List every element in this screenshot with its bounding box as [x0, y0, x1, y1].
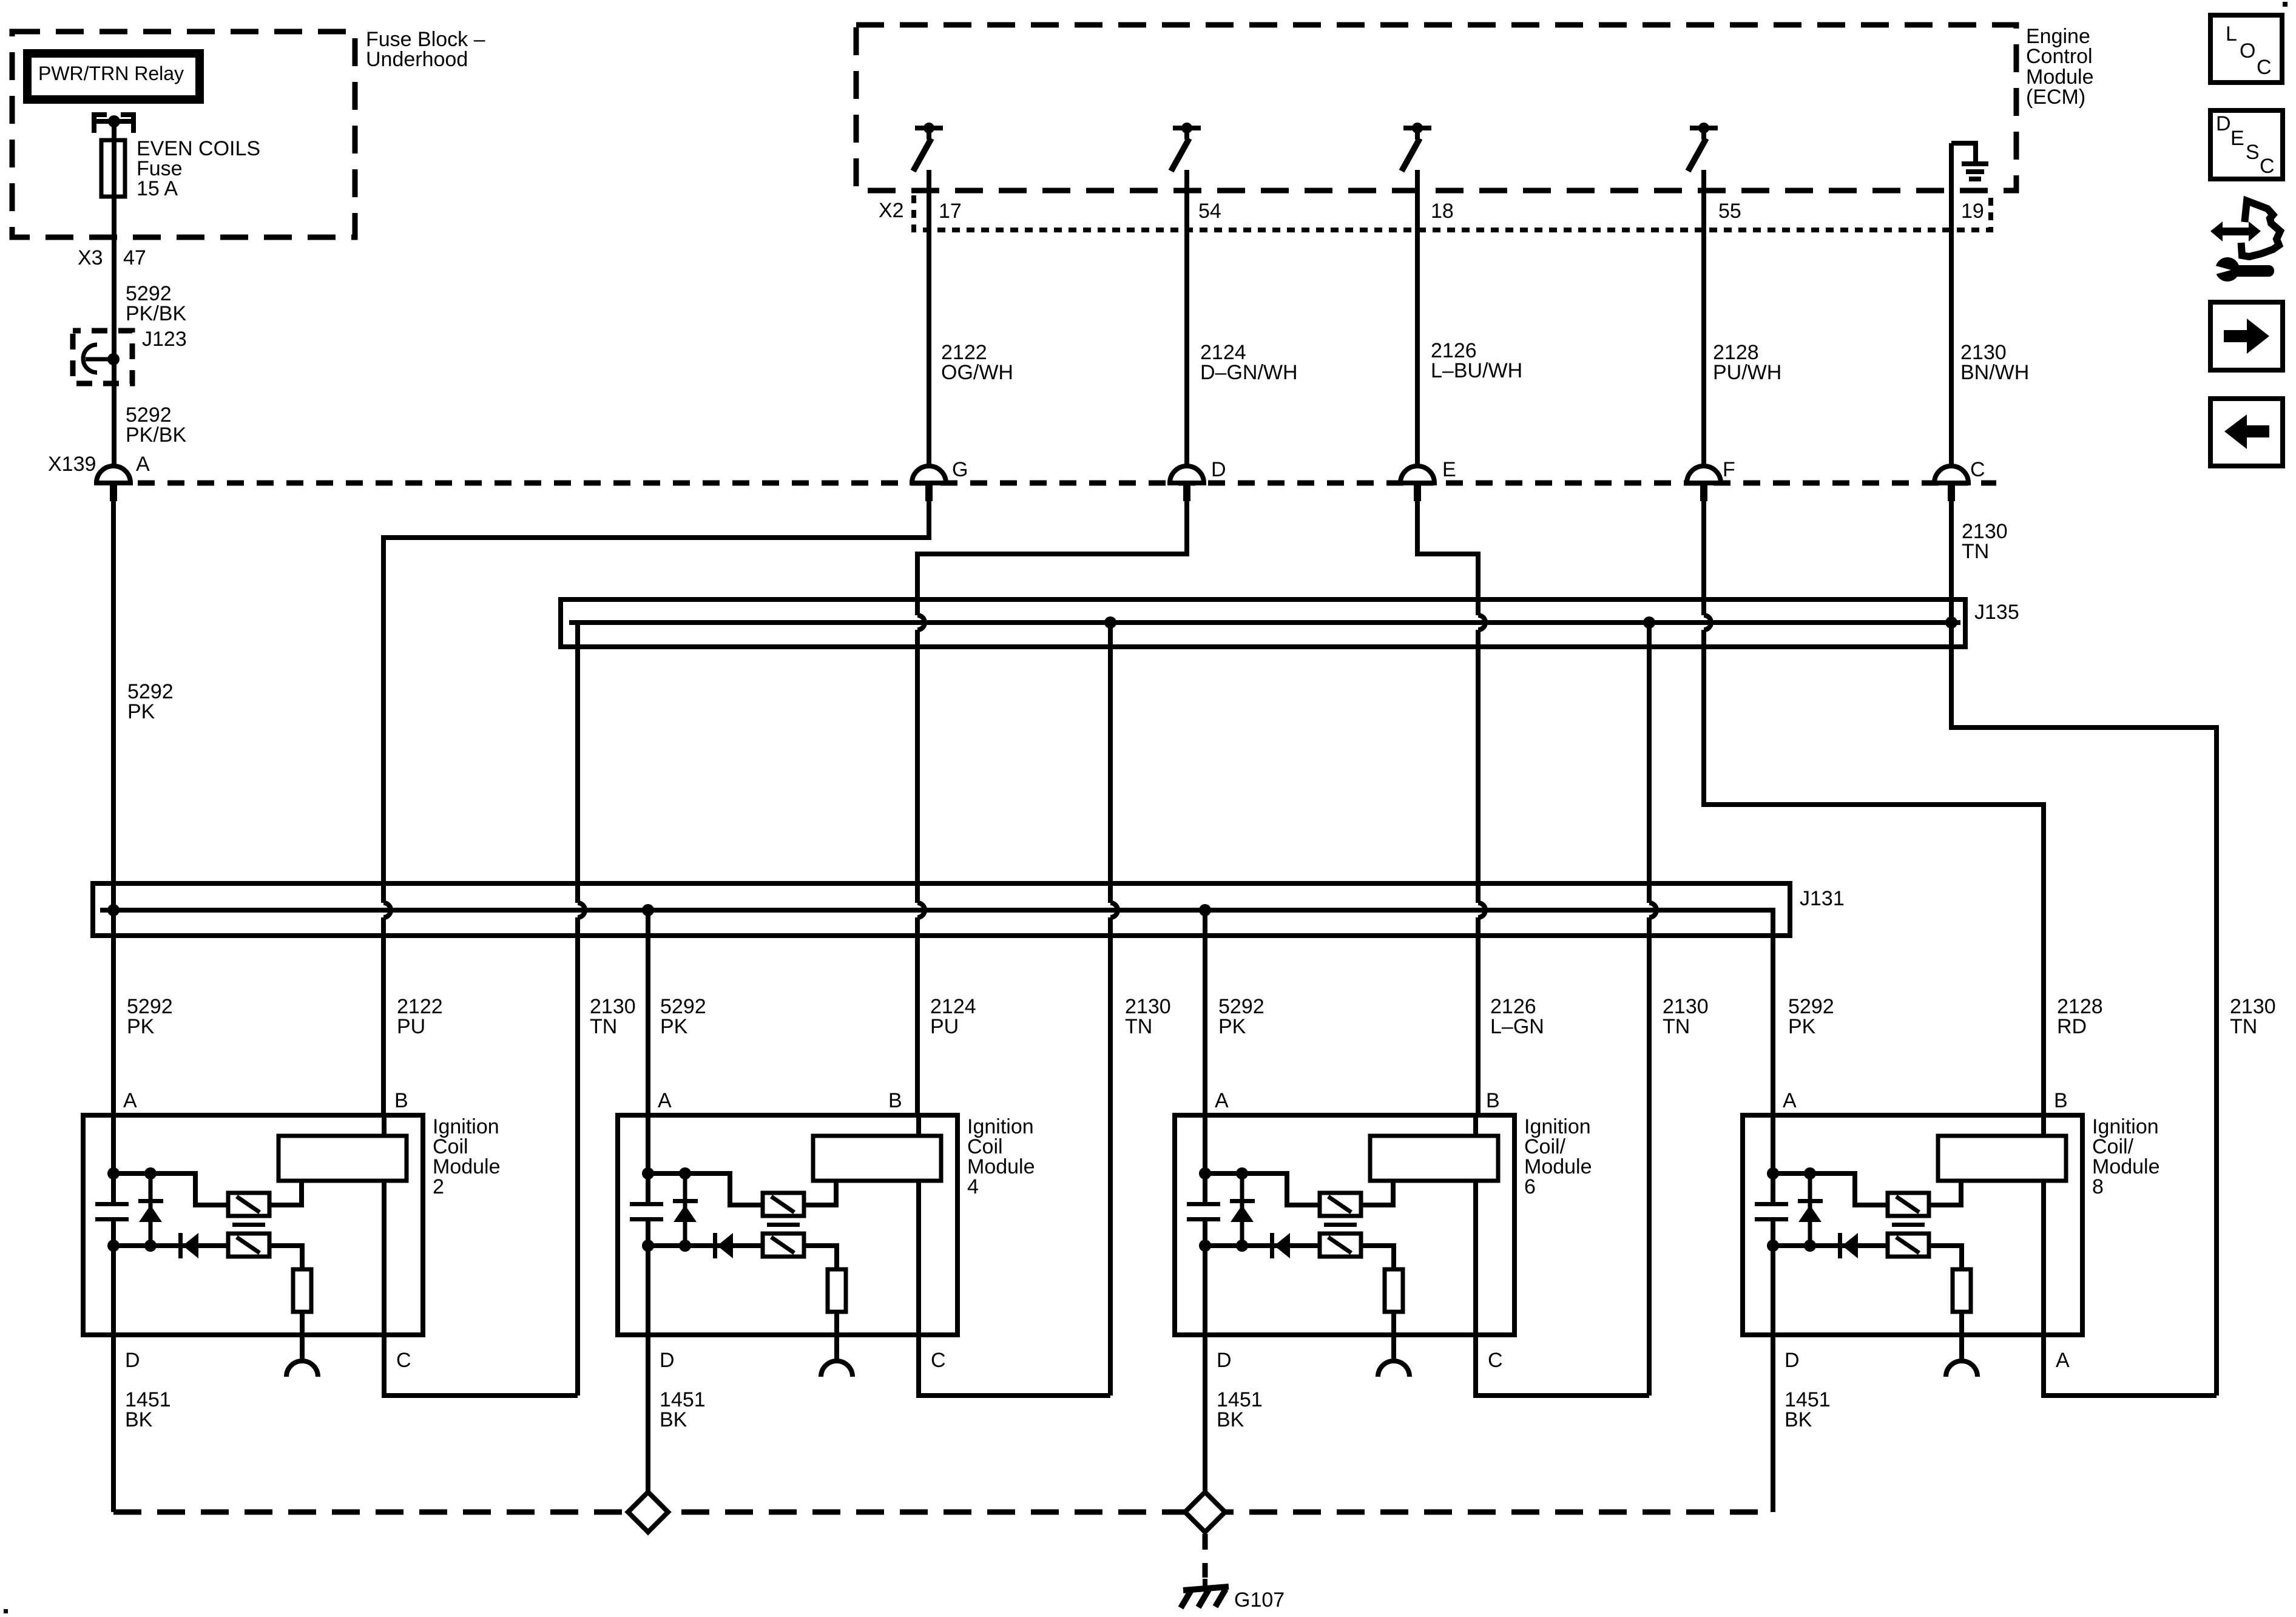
hop of 2124 wire over J135 bus: [917, 615, 925, 630]
module 8 junction dots: [1767, 1167, 1779, 1180]
svg-text:C: C: [2257, 56, 2272, 79]
module 6 opto coupler lower: [1320, 1234, 1361, 1257]
module 2 spark plug lead: [300, 1312, 305, 1361]
junction dot J131 at module 4 feed: [642, 904, 654, 916]
wire 2128 from X139 F down, right and down to module 8 B: [1704, 501, 2044, 1115]
svg-text:8: 8: [2092, 1175, 2104, 1198]
X139 pin D bump: [1170, 458, 1226, 501]
wire 5292 PK from J131 to module 4 A: [646, 910, 650, 1115]
module 2 pin B wire: [382, 1115, 387, 1335]
svg-text:J131: J131: [1800, 887, 1845, 910]
vehicle view icon (car outline): [2241, 201, 2280, 257]
svg-text:BK: BK: [1784, 1408, 1812, 1431]
module 6 junction dots: [1199, 1167, 1211, 1180]
wire pin 55 to X139 F: [1701, 170, 1706, 466]
svg-text:E: E: [1442, 458, 1456, 481]
relay output terminal bracket: [94, 115, 133, 133]
svg-text:BK: BK: [125, 1408, 153, 1431]
module 4 spark plug tower arc: [821, 1361, 853, 1377]
svg-text:A: A: [123, 1089, 137, 1112]
wire 2130 from X139 C down into J135: [1949, 501, 1954, 623]
module 2 secondary return wire to 2130 TN: [384, 1335, 578, 1396]
X139 pin G bump: [912, 458, 968, 501]
svg-text:A: A: [1783, 1089, 1797, 1112]
module 8 pin A wire / primary rail: [1771, 1115, 1775, 1335]
module 8 opto2 lead to resistor: [1929, 1246, 1962, 1269]
ECM internal ground at pin 19: [1951, 143, 1988, 181]
module 6 capacitor: [1187, 1202, 1220, 1206]
module 2 capacitor: [95, 1202, 129, 1206]
junction dot J123: [107, 353, 120, 365]
svg-text:PU: PU: [930, 1015, 959, 1038]
junction dot at relay terminal: [108, 115, 120, 127]
svg-text:55: 55: [1718, 200, 1741, 223]
module 6 pin B wire: [1473, 1115, 1478, 1335]
svg-text:D: D: [1217, 1349, 1232, 1372]
module 6 opto coupler upper: [1320, 1193, 1361, 1216]
wire 5292 PK from J131 to module 6 A: [1203, 910, 1207, 1115]
module 4 secondary return wire to 2130 TN: [919, 1335, 1110, 1396]
splice diamond at module 6 D: [1185, 1492, 1225, 1532]
module 2 zener diode (up): [149, 1173, 153, 1246]
svg-text:PK: PK: [1218, 1015, 1246, 1038]
X139 pin F bump: [1687, 458, 1735, 501]
module 2 resistor: [293, 1269, 311, 1312]
svg-text:4: 4: [967, 1175, 979, 1198]
junction dot J135 at 2130 TN branch 2: [1643, 616, 1655, 629]
ground symbol G107: [1181, 1587, 1229, 1608]
module 2 junction dots: [107, 1167, 120, 1180]
module 6 spark plug lead: [1391, 1312, 1396, 1361]
wire pin 18 to X139 E: [1415, 170, 1420, 466]
svg-text:6: 6: [1524, 1175, 1536, 1198]
module 4 pin D wire to ground bus: [646, 1335, 650, 1493]
Engine Control Module dashed box: [856, 25, 2016, 191]
page corner mark top right: [2283, 2, 2288, 7]
ignition coil module 4 box: [618, 1115, 957, 1335]
svg-text:PWR/TRN Relay: PWR/TRN Relay: [38, 62, 184, 84]
wire 2124 from X139 D left and down to module 4 B: [917, 501, 1187, 1115]
module 8 spark plug tower arc: [1946, 1361, 1977, 1377]
module 4 resistor: [828, 1269, 846, 1312]
ECM driver switch pin 55: [1688, 123, 1718, 171]
module 4 pin B wire: [916, 1115, 921, 1335]
wire pin 17 to X139 G: [927, 170, 931, 466]
module 6 zener diode (up): [1240, 1173, 1244, 1246]
svg-text:A: A: [1215, 1089, 1229, 1112]
module 2 pin D wire to ground bus: [111, 1335, 116, 1512]
svg-text:PK: PK: [127, 1015, 155, 1038]
module 8 resistor: [1953, 1269, 1971, 1312]
ignition coil module 8 box: [1743, 1115, 2082, 1335]
module 6 upper rail: [1205, 1173, 1320, 1205]
module 4 capacitor: [630, 1202, 663, 1206]
svg-text:G: G: [952, 458, 968, 481]
svg-text:(ECM): (ECM): [2026, 86, 2085, 109]
svg-text:TN: TN: [1663, 1015, 1690, 1038]
module 6 lower rail: [1205, 1243, 1320, 1248]
svg-text:D: D: [2216, 112, 2231, 135]
PWR/TRN Relay box: [27, 53, 200, 100]
module 8 upper rail: [1773, 1173, 1888, 1205]
svg-text:X2: X2: [879, 199, 904, 222]
ground bus 1451 BK dashed line: [113, 1510, 1773, 1515]
svg-text:RD: RD: [2057, 1015, 2087, 1038]
module 2 upper rail: [113, 1173, 228, 1205]
module 4 spark plug lead: [834, 1312, 839, 1361]
svg-text:D–GN/WH: D–GN/WH: [1200, 361, 1298, 384]
module 4 opto2 lead to resistor: [804, 1246, 837, 1269]
svg-text:TN: TN: [1962, 540, 1989, 563]
Fuse Block - Underhood dashed box: [12, 32, 355, 237]
svg-text:18: 18: [1431, 200, 1454, 223]
wire 2126 from X139 E right and down to module 6 B: [1417, 501, 1478, 1115]
junction dot J135 at pin C wire: [1945, 616, 1957, 629]
junction dot J131 at 5292 PK main wire: [107, 904, 120, 916]
module 4 lower rail: [648, 1243, 763, 1248]
svg-text:BK: BK: [1217, 1408, 1244, 1431]
junction dot J131 at module 6 feed: [1199, 904, 1211, 916]
X2 connector strip: [914, 195, 1991, 230]
hop of 2126 wire over J131 bus: [1478, 903, 1485, 917]
module 8 pin D wire to ground bus: [1771, 1335, 1775, 1512]
svg-text:C: C: [1488, 1349, 1503, 1372]
svg-text:15 A: 15 A: [137, 177, 178, 200]
ECM driver switch pin 17: [913, 123, 943, 171]
svg-text:C: C: [2260, 155, 2275, 178]
svg-text:BN/WH: BN/WH: [1960, 361, 2029, 384]
ECM driver switch pin 54: [1171, 123, 1201, 171]
svg-text:C: C: [1970, 458, 1985, 481]
svg-text:Control: Control: [2026, 45, 2093, 68]
wire 2130 TN from J135 down to module 4 C run: [1108, 623, 1113, 1396]
module 6 diode (left): [1270, 1233, 1274, 1258]
svg-text:D: D: [1784, 1349, 1800, 1372]
wire 2130 TN from J135 down to module 6 C run: [1647, 623, 1652, 1396]
module 8 secondary return wire to 2130 TN: [2044, 1335, 2217, 1396]
module 2 core bar: [232, 1223, 265, 1227]
J135 bus line: [569, 623, 1960, 647]
module 4 opto coupler lower: [763, 1234, 804, 1257]
svg-text:X139: X139: [48, 453, 96, 476]
svg-text:Underhood: Underhood: [366, 48, 468, 71]
svg-text:D: D: [1211, 458, 1226, 481]
previous page arrow icon: [2210, 399, 2283, 466]
module 6 core bar: [1324, 1223, 1357, 1227]
module 8 core bar: [1892, 1223, 1925, 1227]
svg-text:PU/WH: PU/WH: [1713, 361, 1781, 384]
svg-text:C: C: [931, 1349, 946, 1372]
svg-text:PK/BK: PK/BK: [126, 302, 186, 325]
hop of left 2130 TN wire over J131 bus: [578, 903, 585, 917]
svg-text:E: E: [2230, 127, 2244, 150]
module 8 pin B wire: [2041, 1115, 2046, 1335]
module 6 opto2 lead to resistor: [1361, 1246, 1394, 1269]
ECM driver switch pin 18: [1402, 123, 1431, 171]
svg-text:B: B: [1486, 1089, 1500, 1112]
svg-text:J135: J135: [1974, 601, 2019, 624]
module 2 opto1 output lead: [269, 1181, 302, 1205]
module 8 coil IC block: [1938, 1136, 2066, 1181]
module 2 diode (left): [178, 1233, 183, 1258]
svg-text:19: 19: [1961, 200, 1984, 223]
dashed drop to ground G107: [1203, 1534, 1208, 1578]
module 4 upper rail: [648, 1173, 763, 1205]
wire 2122 from X139 G left and down to module 2 B: [383, 501, 929, 1115]
LOC icon box: [2210, 15, 2282, 83]
DESC icon box: [2210, 110, 2283, 179]
junction dot J135 at 2130 TN branch 1: [1104, 616, 1116, 629]
module 6 resistor: [1385, 1269, 1403, 1312]
module 8 spark plug lead: [1959, 1312, 1964, 1361]
module 2 pin A wire / primary rail: [111, 1115, 116, 1335]
svg-text:TN: TN: [590, 1015, 617, 1038]
module 4 coil IC block: [813, 1136, 941, 1181]
svg-text:L–BU/WH: L–BU/WH: [1431, 359, 1522, 382]
hop of 2124 wire over J131 bus: [917, 903, 925, 917]
svg-text:B: B: [888, 1089, 902, 1112]
wire pin 54 to X139 D: [1184, 170, 1189, 466]
splice pack J131 outer bar: [93, 883, 1790, 936]
svg-text:D: D: [125, 1349, 140, 1372]
svg-text:A: A: [136, 453, 150, 476]
module 4 core bar: [767, 1223, 800, 1227]
page corner mark bottom left: [4, 1609, 8, 1613]
vehicle view icon (wrench): [2211, 257, 2274, 282]
X139 pin A bump: [96, 453, 150, 501]
ignition coil module 2 box: [83, 1115, 423, 1335]
wire from relay terminal through fuse down to X139: [112, 121, 116, 466]
module 8 opto coupler upper: [1888, 1193, 1929, 1216]
module 4 junction dots: [642, 1167, 654, 1180]
hop of 2128 wire over J135 bus: [1704, 615, 1711, 630]
module 6 pin D wire to ground bus: [1203, 1335, 1207, 1493]
splice symbol in J123: [83, 345, 113, 373]
hop over J131 bus: [1649, 903, 1656, 917]
hop of 2126 wire over J135 bus: [1478, 615, 1485, 630]
module 2 lower rail: [113, 1243, 228, 1248]
X139 pin E bump: [1400, 458, 1456, 501]
svg-text:OG/WH: OG/WH: [941, 361, 1013, 384]
module 8 zener diode (up): [1808, 1173, 1812, 1246]
wire pin 19 to X139 C: [1949, 143, 1954, 468]
wire 5292 PK from X139 A down to module 2 (through J131 dot): [111, 501, 116, 1115]
svg-text:O: O: [2240, 39, 2255, 62]
svg-text:C: C: [396, 1349, 411, 1372]
svg-text:J123: J123: [142, 328, 187, 351]
svg-text:2: 2: [433, 1175, 444, 1198]
svg-text:G107: G107: [1234, 1588, 1285, 1612]
hop over J131 bus: [1110, 903, 1118, 917]
svg-text:PK: PK: [660, 1015, 688, 1038]
module 4 diode (left): [713, 1233, 717, 1258]
svg-text:PU: PU: [397, 1015, 425, 1038]
ignition coil module 6 box: [1175, 1115, 1514, 1335]
svg-text:A: A: [658, 1089, 672, 1112]
module 2 opto coupler upper: [228, 1193, 269, 1216]
module 8 capacitor: [1755, 1202, 1788, 1206]
splice pack J135 outer bar: [561, 599, 1965, 647]
wire 5292 PK from J131 right end to module 8 A: [1771, 936, 1775, 1115]
svg-text:47: 47: [123, 246, 146, 269]
X139 pin C bump: [1934, 458, 1985, 501]
svg-text:PK: PK: [1788, 1015, 1816, 1038]
module 8 opto coupler lower: [1888, 1234, 1929, 1257]
module 6 coil IC block: [1370, 1136, 1498, 1181]
module 4 zener diode (up): [683, 1173, 687, 1246]
svg-text:TN: TN: [1125, 1015, 1152, 1038]
module 4 opto1 output lead: [804, 1181, 836, 1205]
svg-text:S: S: [2246, 141, 2260, 164]
module 6 secondary return wire to 2130 TN: [1476, 1335, 1649, 1396]
svg-text:54: 54: [1198, 200, 1221, 223]
fuse EVEN COILS 15 A: [101, 140, 125, 197]
vehicle view icon (double arrow): [2210, 221, 2261, 241]
wire 2130 TN from J135 left end down to module 2 C run: [575, 647, 580, 1396]
svg-text:L–GN: L–GN: [1490, 1015, 1544, 1038]
splice diamond at module 4 D: [628, 1492, 668, 1532]
next page arrow icon: [2210, 302, 2283, 370]
module 8 lower rail: [1773, 1243, 1888, 1248]
module 2 opto2 lead to resistor: [269, 1246, 302, 1269]
module 4 opto coupler upper: [763, 1193, 804, 1216]
hop of 2122 wire over J131 bus: [383, 903, 391, 917]
svg-text:X3: X3: [78, 246, 103, 269]
module 8 diode (left): [1838, 1233, 1842, 1258]
module 6 pin A wire / primary rail: [1203, 1115, 1207, 1335]
svg-text:BK: BK: [660, 1408, 687, 1431]
svg-text:17: 17: [939, 200, 962, 223]
module 6 opto1 output lead: [1361, 1181, 1393, 1205]
svg-text:F: F: [1723, 458, 1735, 481]
module 2 coil IC block: [279, 1136, 407, 1181]
svg-text:PK/BK: PK/BK: [126, 424, 186, 447]
splice J123 dashed box: [73, 331, 132, 383]
svg-text:PK: PK: [127, 700, 155, 723]
X139 inline connector dashed line: [138, 481, 1996, 486]
J131 bus line: [100, 910, 1773, 936]
module 2 opto coupler lower: [228, 1234, 269, 1257]
svg-text:TN: TN: [2230, 1015, 2257, 1038]
module 8 opto1 output lead: [1929, 1181, 1961, 1205]
module 2 spark plug tower arc: [286, 1361, 318, 1377]
svg-text:B: B: [2054, 1089, 2068, 1112]
module 4 pin A wire / primary rail: [646, 1115, 650, 1335]
wire 2130 TN from J135 right end down, right, down far right side: [1951, 623, 2217, 1396]
svg-text:A: A: [2056, 1349, 2070, 1372]
svg-text:D: D: [660, 1349, 675, 1372]
module 6 spark plug tower arc: [1378, 1361, 1410, 1377]
svg-text:L: L: [2226, 22, 2237, 46]
svg-text:B: B: [394, 1089, 408, 1112]
